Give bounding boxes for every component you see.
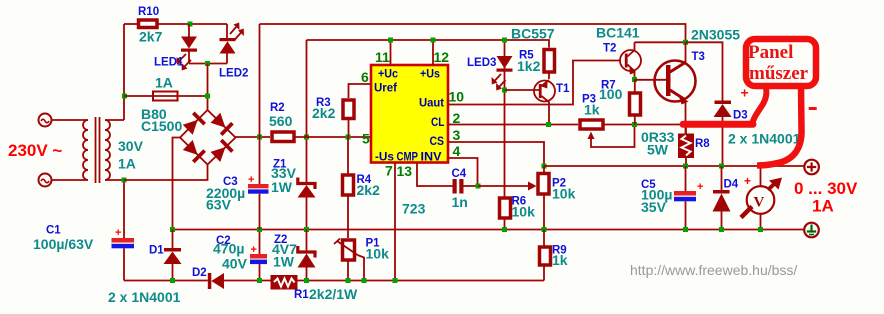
node T1 base junction <box>502 88 507 93</box>
pin 11 <box>390 40 392 65</box>
svg-text:V: V <box>754 195 765 211</box>
node R3 R4 junction <box>346 135 351 140</box>
svg-text:INV: INV <box>421 150 442 164</box>
svg-text:1n: 1n <box>452 194 468 210</box>
svg-text:35V: 35V <box>641 199 667 215</box>
node C5 bottom junction <box>683 227 688 232</box>
node Z2 bottom junction <box>304 278 309 283</box>
svg-text:4: 4 <box>453 143 461 159</box>
svg-text:+: + <box>744 174 751 188</box>
pin 7 wire <box>394 163 396 281</box>
node pin7 bottom junction <box>393 278 398 283</box>
output terminal ground <box>804 223 819 238</box>
node T2 emitter T3 base junction <box>632 77 637 82</box>
wire bridge left corner down <box>173 138 181 231</box>
svg-text:5W: 5W <box>647 142 669 158</box>
wire terminal top to transformer <box>52 119 89 121</box>
svg-text:T1: T1 <box>556 83 570 95</box>
svg-text:D1: D1 <box>149 245 164 257</box>
svg-text:230V ~: 230V ~ <box>8 141 62 160</box>
svg-text:R1: R1 <box>294 289 309 301</box>
potentiometer P2 <box>528 166 549 230</box>
zener Z1 <box>298 137 316 230</box>
svg-text:+: + <box>251 244 257 256</box>
wire x=259.5 vertical up to top rail <box>259 24 261 137</box>
svg-text:10: 10 <box>449 89 465 105</box>
svg-text:1W: 1W <box>273 254 295 270</box>
wire NI line R2 to IC pin5 <box>294 136 371 138</box>
svg-text:R10: R10 <box>138 6 159 18</box>
transistor Q2 T2 BC141 <box>620 42 641 79</box>
wire LED bottom rail <box>189 63 227 65</box>
svg-text:1A: 1A <box>118 156 136 172</box>
svg-text:LED3: LED3 <box>467 57 496 69</box>
svg-text:10k: 10k <box>512 204 536 220</box>
op-amp U1 723 regulator box <box>371 65 448 163</box>
transformer TR1 <box>83 117 124 183</box>
transistor Q1 T1 BC557 <box>505 80 556 125</box>
svg-text:T3: T3 <box>692 51 705 63</box>
LED3 <box>492 56 513 91</box>
svg-text:Uref: Uref <box>374 81 398 95</box>
potentiometer P3 <box>580 120 635 147</box>
wire middle rail M y=229.5 <box>173 229 804 231</box>
svg-text:470µ: 470µ <box>213 241 244 257</box>
svg-text:+: + <box>115 227 121 239</box>
svg-text:D3: D3 <box>733 110 748 122</box>
svg-text:C4: C4 <box>452 168 467 180</box>
svg-text:2k7: 2k7 <box>139 29 163 45</box>
resistor R3 <box>343 84 371 137</box>
svg-text:1A: 1A <box>812 197 834 216</box>
marker minus <box>809 107 817 110</box>
svg-text:2k2: 2k2 <box>357 182 381 198</box>
resistor R1 <box>271 275 298 290</box>
svg-text:100: 100 <box>599 86 623 102</box>
node T1 collector CL junction <box>546 122 551 127</box>
diode D1 <box>164 230 182 281</box>
node DC+ junction <box>257 135 262 140</box>
svg-text:12: 12 <box>434 49 450 65</box>
capacitor C2 <box>250 230 267 281</box>
node R8 bottom C5 top junction <box>683 164 688 169</box>
svg-text:műszer: műszer <box>749 63 809 84</box>
potentiometer P1 <box>334 239 364 281</box>
svg-text:-Us: -Us <box>375 150 394 164</box>
wire bottom rail y=280.5 <box>124 280 208 282</box>
svg-text:C1500: C1500 <box>141 118 182 134</box>
AC input terminal bottom <box>39 174 52 187</box>
svg-text:723: 723 <box>402 201 426 217</box>
svg-text:Panel: Panel <box>748 42 793 63</box>
transistor Q3 T3 2N3055 <box>635 42 696 134</box>
capacitor C3 <box>248 137 269 230</box>
pin 12 <box>432 40 434 65</box>
svg-text:30V: 30V <box>118 138 144 154</box>
node D1 bottom junction <box>170 278 175 283</box>
svg-text:CS: CS <box>430 134 445 148</box>
diode D3 <box>686 42 732 166</box>
resistor R10 <box>139 20 158 28</box>
pin 4 wire <box>448 158 478 186</box>
resistor R6 <box>500 198 511 230</box>
pin 13 wire to C4 <box>417 163 453 187</box>
wire LED3 R6 vertical x=504.5 <box>504 40 506 198</box>
LED2 <box>220 23 245 64</box>
svg-text:2k2/1W: 2k2/1W <box>309 286 358 302</box>
marker stroke B to plus rail <box>757 85 802 166</box>
wire x=306.5 top vertical <box>306 40 308 137</box>
node V bottom junction <box>758 227 763 232</box>
resistor R2 <box>272 132 294 142</box>
svg-text:1k: 1k <box>584 102 600 118</box>
svg-text:560: 560 <box>269 113 293 129</box>
svg-text:7: 7 <box>385 163 393 179</box>
svg-text:+: + <box>248 174 254 186</box>
svg-text:2 x 1N4001: 2 x 1N4001 <box>728 131 801 147</box>
svg-text:11: 11 <box>375 49 390 65</box>
svg-text:CMP: CMP <box>397 150 419 164</box>
marker stroke A to box <box>752 86 766 125</box>
node LED bottom junction <box>205 61 210 66</box>
svg-text:Uaut: Uaut <box>419 96 444 110</box>
svg-text:D4: D4 <box>724 179 739 191</box>
svg-text:1A: 1A <box>155 75 173 91</box>
node CS P2 junction <box>542 164 547 169</box>
svg-text:2: 2 <box>453 110 461 126</box>
svg-text:BC557: BC557 <box>511 26 555 42</box>
marker box Panel muszer <box>746 39 816 86</box>
IC internal labels <box>374 67 445 164</box>
wire bridge bottom to transformer <box>124 165 208 181</box>
capacitor C4 <box>453 179 479 194</box>
resistor R4 <box>343 137 354 238</box>
pin 10 Uaut wire <box>448 61 621 105</box>
wire bridge right corner to R2 node <box>236 136 271 138</box>
svg-text:C1: C1 <box>46 225 61 237</box>
node Z1 bottom junction <box>304 227 309 232</box>
svg-text:10k: 10k <box>366 246 390 262</box>
wire terminal bottom to transformer <box>52 179 89 181</box>
node V top junction <box>758 164 763 169</box>
svg-text:1k2: 1k2 <box>517 58 541 74</box>
svg-text:100µ/63V: 100µ/63V <box>33 236 94 252</box>
wire output plus rail y=166 <box>544 165 804 167</box>
node fuse right junction <box>205 94 210 99</box>
resistor R8 0R33 <box>678 134 694 167</box>
capacitor C5 <box>674 166 703 230</box>
node C2 top junction <box>257 227 262 232</box>
svg-text:5: 5 <box>362 131 370 147</box>
svg-text:+Uc: +Uc <box>378 67 398 81</box>
wire secondary bottom to C1 <box>123 180 125 238</box>
svg-text:D2: D2 <box>192 267 207 279</box>
svg-text:+: + <box>741 85 749 101</box>
svg-text:2N3055: 2N3055 <box>691 27 740 43</box>
wire secondary top vertical x=124 <box>123 24 125 120</box>
diode D2 <box>208 273 224 289</box>
node secondary bottom junction <box>122 178 127 183</box>
diode D4 <box>713 166 731 230</box>
output terminal plus <box>804 160 819 175</box>
node P1 wiper junction <box>362 278 367 283</box>
svg-text:2 x 1N4001: 2 x 1N4001 <box>108 289 181 305</box>
node LED3 top junction <box>502 38 507 43</box>
node C4 pin4 junction <box>476 184 481 189</box>
svg-text:10k: 10k <box>552 186 576 202</box>
wire CL from P3 to R8 <box>603 125 686 135</box>
svg-text:http://www.freeweb.hu/bss/: http://www.freeweb.hu/bss/ <box>630 262 797 278</box>
svg-text:40V: 40V <box>222 256 248 272</box>
bridge rectifier B80 C1500 <box>180 110 236 165</box>
node collector junction <box>683 40 688 45</box>
LED1 <box>177 24 198 71</box>
node rail M start D1 top <box>170 227 175 232</box>
node Z1 top junction <box>304 135 309 140</box>
wire rail B y=40 <box>307 40 550 48</box>
node R10-LED junction <box>188 22 193 27</box>
wire LED junction down to fuse row <box>207 64 209 111</box>
svg-text:1k: 1k <box>552 252 568 268</box>
AC input terminal top <box>39 114 52 127</box>
svg-text:1W: 1W <box>271 179 293 195</box>
svg-text:2k2: 2k2 <box>312 105 336 121</box>
wire T2 collector to T3 collector <box>635 41 686 43</box>
node C2 bottom junction <box>257 278 262 283</box>
svg-text:3: 3 <box>453 127 461 143</box>
pin 3 CS wire <box>448 142 544 166</box>
node secondary top junction <box>122 94 127 99</box>
wire C4 node to P2 wiper <box>478 185 528 187</box>
svg-text:T2: T2 <box>603 43 616 55</box>
svg-text:LED1: LED1 <box>154 57 184 69</box>
svg-text:BC141: BC141 <box>596 25 640 41</box>
node D3 bottom junction <box>719 164 724 169</box>
fuse 1A <box>124 92 208 101</box>
node P2 bottom rail M junction <box>542 227 547 232</box>
node R6 bottom rail M junction <box>502 227 507 232</box>
wire top supply rail A <box>260 24 686 42</box>
svg-text:+: + <box>697 181 703 193</box>
svg-text:13: 13 <box>397 163 413 179</box>
svg-text:R8: R8 <box>695 138 710 150</box>
node D4 bottom junction <box>719 227 724 232</box>
svg-text:+Us: +Us <box>420 67 440 81</box>
node P1 bottom junction <box>346 278 351 283</box>
zener Z2 <box>298 230 316 281</box>
voltmeter V <box>741 166 782 230</box>
resistor R9 <box>540 230 551 281</box>
pin 2 CL wire <box>448 124 578 126</box>
svg-text:CL: CL <box>431 115 445 129</box>
capacitor C1 <box>112 227 135 281</box>
resistor R5 <box>544 50 555 80</box>
svg-text:0 ... 30V: 0 ... 30V <box>794 179 858 198</box>
wire R10 row y=24 <box>124 23 138 25</box>
node R7 P3 junction <box>632 122 637 127</box>
svg-text:63V: 63V <box>206 197 232 213</box>
svg-text:LED2: LED2 <box>219 68 248 80</box>
marker thick line over R8 <box>683 121 753 128</box>
resistor R7 <box>630 80 641 125</box>
svg-text:6: 6 <box>361 69 369 85</box>
